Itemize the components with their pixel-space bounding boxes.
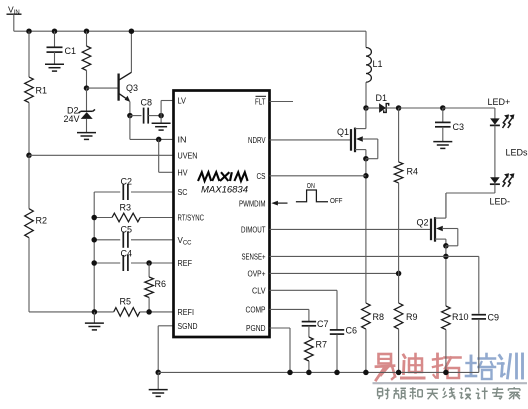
svg-text:R7: R7 — [316, 340, 328, 350]
svg-text:REF: REF — [178, 259, 193, 268]
svg-text:Q2: Q2 — [417, 218, 429, 228]
svg-text:DIMOUT: DIMOUT — [241, 226, 266, 235]
svg-text:CLV: CLV — [252, 287, 266, 296]
svg-text:REFI: REFI — [178, 308, 195, 317]
svg-text:PGND: PGND — [246, 324, 266, 333]
svg-text:R6: R6 — [155, 279, 167, 289]
svg-text:R3: R3 — [120, 203, 132, 213]
svg-text:LED-: LED- — [490, 197, 511, 207]
svg-text:UVEN: UVEN — [178, 152, 198, 161]
svg-text:R1: R1 — [36, 86, 48, 96]
svg-text:FLT: FLT — [255, 98, 266, 107]
svg-text:C4: C4 — [121, 249, 133, 259]
svg-text:HV: HV — [178, 169, 189, 178]
svg-text:C8: C8 — [141, 98, 153, 108]
svg-text:PWMDIM: PWMDIM — [239, 199, 266, 208]
svg-text:R10: R10 — [452, 312, 469, 322]
svg-text:24V: 24V — [64, 114, 80, 124]
svg-text:C3: C3 — [453, 122, 465, 132]
svg-text:SGND: SGND — [178, 322, 198, 331]
svg-text:R8: R8 — [373, 312, 385, 322]
svg-text:C5: C5 — [121, 225, 133, 235]
svg-text:NDRV: NDRV — [248, 136, 266, 145]
svg-text:R2: R2 — [36, 216, 48, 226]
svg-text:C6: C6 — [346, 326, 358, 336]
svg-text:C1: C1 — [65, 46, 77, 56]
svg-text:OVP+: OVP+ — [248, 270, 266, 279]
svg-text:OFF: OFF — [330, 196, 343, 205]
svg-text:LED+: LED+ — [488, 97, 511, 107]
svg-text:IN: IN — [178, 136, 187, 145]
svg-text:SC: SC — [178, 188, 188, 197]
svg-text:LEDs: LEDs — [506, 148, 528, 158]
svg-text:CS: CS — [257, 172, 266, 181]
svg-text:MAX16834: MAX16834 — [201, 185, 248, 196]
svg-text:LV: LV — [178, 97, 187, 106]
svg-text:L1: L1 — [373, 59, 383, 69]
svg-text:C9: C9 — [488, 313, 500, 323]
svg-text:COMP: COMP — [246, 306, 266, 315]
svg-text:Q1: Q1 — [337, 127, 349, 137]
svg-text:RT/SYNC: RT/SYNC — [178, 214, 205, 223]
svg-text:R5: R5 — [120, 297, 132, 307]
svg-text:D1: D1 — [376, 93, 388, 103]
svg-text:R9: R9 — [406, 312, 418, 322]
svg-text:SENSE+: SENSE+ — [242, 253, 266, 262]
svg-text:R4: R4 — [407, 167, 419, 177]
svg-text:C7: C7 — [317, 319, 329, 329]
svg-text:ON: ON — [307, 181, 315, 190]
svg-text:C2: C2 — [121, 177, 133, 187]
svg-text:Q3: Q3 — [126, 83, 138, 93]
